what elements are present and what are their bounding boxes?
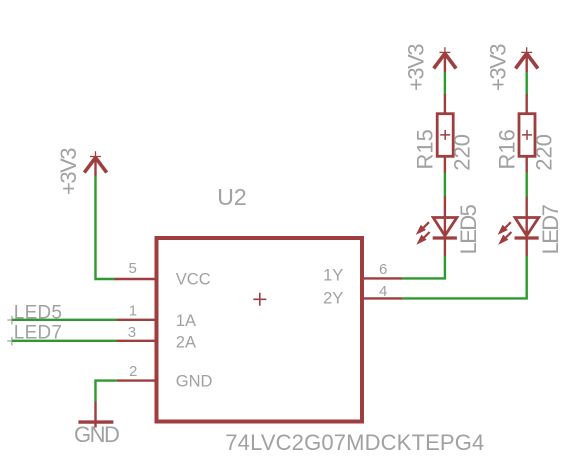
supply +3V3 (left) (84, 151, 106, 176)
svg-text:1: 1 (129, 303, 137, 320)
wire LED7 to pin 4 (402, 256, 526, 299)
wire net LED5 (12, 319, 117, 321)
svg-text:6: 6 (379, 261, 387, 278)
pin 6 1Y lead (361, 277, 403, 279)
supply +3V3 (right 1) (434, 47, 456, 72)
svg-text:220: 220 (450, 134, 475, 171)
pin 1 1A lead (117, 319, 159, 321)
pin 2 GND lead (117, 379, 159, 381)
svg-text:+3V3: +3V3 (404, 44, 429, 91)
svg-text:+3V3: +3V3 (485, 44, 510, 91)
net LED7 origin cross (7, 337, 16, 346)
svg-text:VCC: VCC (176, 271, 211, 289)
wire R16 to LED7 (526, 173, 528, 197)
svg-text:GND: GND (176, 372, 213, 390)
svg-text:5: 5 (129, 260, 137, 277)
svg-text:R16: R16 (494, 129, 519, 169)
LED LED5 (416, 197, 457, 257)
supply +3V3 (right 2) (516, 47, 538, 72)
svg-text:1A: 1A (176, 312, 196, 330)
pin 5 VCC lead (115, 278, 159, 280)
svg-text:LED5: LED5 (456, 204, 481, 254)
net LED5 origin cross (7, 316, 16, 325)
svg-text:+3V3: +3V3 (56, 148, 81, 195)
svg-text:GND: GND (74, 422, 119, 447)
wire LED5 to pin 6 (402, 256, 445, 279)
svg-text:1Y: 1Y (323, 267, 343, 285)
svg-text:U2: U2 (217, 184, 246, 210)
pin 4 2Y lead (361, 297, 403, 299)
LED LED7 (498, 197, 539, 257)
resistor R16 (519, 94, 535, 173)
wire +3V3 to R16 (526, 72, 528, 95)
svg-text:4: 4 (379, 283, 387, 300)
svg-text:3: 3 (128, 324, 136, 341)
svg-text:74LVC2G07MDCKTEPG4: 74LVC2G07MDCKTEPG4 (225, 430, 484, 455)
pin 3 2A lead (117, 340, 159, 342)
svg-text:2Y: 2Y (323, 290, 343, 308)
ground GND symbol (78, 402, 113, 428)
wire pin 2 to GND (96, 381, 117, 402)
svg-text:LED7: LED7 (538, 204, 563, 254)
resistor R15 (437, 94, 453, 173)
wire R15 to LED5 (444, 173, 446, 197)
svg-text:2: 2 (129, 363, 137, 380)
wire +3V3 to pin 5 (96, 176, 116, 279)
svg-text:R15: R15 (413, 129, 438, 169)
svg-text:220: 220 (532, 134, 557, 171)
svg-text:2A: 2A (176, 334, 196, 352)
wire net LED7 (12, 340, 117, 342)
IC U2 origin cross (253, 293, 266, 306)
IC U2 body (157, 238, 363, 422)
wire +3V3 to R15 (444, 72, 446, 95)
